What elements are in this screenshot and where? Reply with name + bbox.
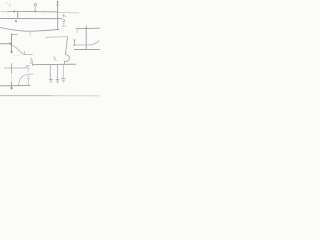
wire H1 right faint continuation — [58, 11, 79, 14]
label faint glyphs top-left — [5, 3, 10, 8]
capacitor C1 lead — [27, 68, 29, 72]
wire top bus H1 — [1, 11, 8, 13]
arrowhead node bottom — [11, 88, 13, 90]
label text t1 — [63, 14, 66, 17]
faint dashed wire — [14, 54, 21, 56]
wire cross V lower with arrow — [11, 82, 13, 88]
node tick on H16 — [23, 51, 25, 54]
node junction A1-H1 — [34, 11, 36, 12]
label underline — [62, 25, 66, 27]
wire H15 — [0, 43, 11, 45]
wire cross V faint middle — [11, 74, 13, 83]
wire vertical V4 — [57, 2, 59, 29]
wire H6 — [74, 49, 100, 51]
wire H7 right — [76, 27, 100, 30]
ground G3 — [62, 78, 66, 82]
wire H1 main — [8, 11, 57, 13]
wire drop to ground G2 — [56, 64, 58, 79]
arrowhead node below H2 — [15, 20, 16, 22]
node tick on V4 — [56, 4, 59, 6]
wire cross V at x11.5 upper — [11, 64, 13, 74]
node dot H5 left — [74, 44, 76, 46]
node tick on H1 — [13, 10, 15, 12]
wire stub H14 — [12, 34, 18, 36]
wire bottom bus H12 left — [0, 95, 52, 97]
capacitor C2 lead with hook to H11 — [27, 78, 29, 85]
capacitor C1 plates — [26, 66, 30, 69]
wire H9 — [4, 66, 27, 68]
wire V5 — [85, 26, 87, 49]
label text t3 — [63, 23, 64, 25]
wire bus H11 — [0, 85, 30, 87]
wire stub drop at x77 — [76, 29, 78, 33]
node dot H7-V5 — [85, 28, 87, 30]
wire H4 — [46, 36, 68, 39]
wire connector V1 — [17, 12, 19, 19]
wire bottom bus H12 right faint — [52, 95, 100, 97]
label squiggle at bus start — [30, 58, 32, 65]
wire bus H2 — [0, 18, 62, 20]
wire V9 — [11, 34, 13, 53]
wire H5 with upswept end — [74, 41, 99, 45]
arrowhead node V9 bottom — [11, 52, 13, 54]
node tick on H1 right — [43, 11, 45, 13]
node junction H11 — [18, 85, 19, 86]
wire drop to ground G1 — [49, 65, 52, 79]
antenna terminal A1 — [34, 3, 37, 6]
node tick at V4 bottom — [56, 29, 59, 31]
wire lead from A1 — [34, 6, 36, 11]
ground G2 — [56, 79, 59, 83]
wire V6 — [73, 40, 75, 45]
node dot below H3 — [30, 34, 31, 35]
pin arrow top of V4 — [57, 1, 58, 2]
capacitor C2 plates — [27, 76, 30, 78]
wire bus H3 sagging — [0, 27, 59, 31]
node tick V6 top — [73, 39, 76, 41]
label squiggle near bus — [54, 57, 57, 61]
node tick below H3 — [29, 31, 31, 33]
wire drop to ground G3 — [62, 64, 64, 78]
wire bus H8 — [33, 63, 77, 66]
label text t2 — [63, 19, 65, 22]
ground G1 — [49, 79, 52, 83]
wire curve from H11 up to H10 — [19, 74, 33, 85]
wire S-curve to H16 — [12, 45, 32, 54]
wire V7 with coil loop — [64, 37, 69, 65]
arrowhead node H15 end — [10, 43, 12, 45]
